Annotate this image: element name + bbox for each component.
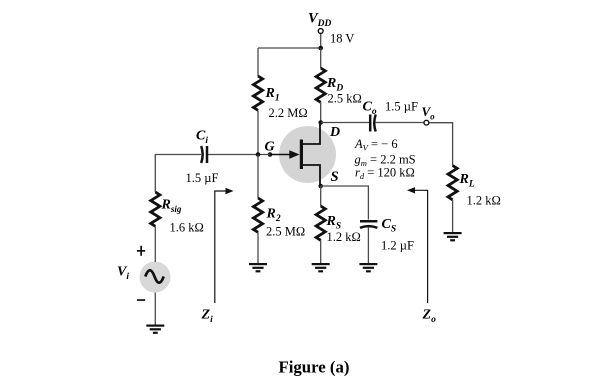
- wire: VDD terminal to top rail: [320, 34, 322, 49]
- wire: divider node down to R2: [257, 155, 259, 199]
- svg-text:Vi: Vi: [117, 265, 129, 283]
- label Zo: [422, 308, 437, 326]
- svg-text:CS: CS: [382, 217, 397, 235]
- value 2.5 MOhm (R2): [266, 225, 305, 239]
- wire: R2 to ground: [257, 232, 259, 263]
- label Rsig: [161, 198, 182, 215]
- params text: Av: [354, 137, 398, 153]
- svg-text:Zi: Zi: [201, 308, 214, 326]
- Zi measurement arrow: [215, 188, 234, 303]
- ground (RS): [312, 263, 330, 272]
- label RS: [326, 214, 342, 232]
- svg-text:1.5 µF: 1.5 µF: [186, 171, 219, 185]
- drain lead: [302, 124, 320, 144]
- wire: Vo to RL corner: [429, 123, 453, 166]
- terminal Vo: [424, 120, 429, 125]
- svg-text:18 V: 18 V: [330, 32, 354, 46]
- node: gate junction G: [268, 152, 273, 157]
- wire: Rsig to Vi source: [154, 226, 156, 262]
- svg-text:1.2 kΩ: 1.2 kΩ: [327, 230, 361, 244]
- wire: S to RS: [320, 186, 322, 206]
- svg-text:R2: R2: [266, 207, 281, 225]
- value 2.5 kOhm (RD): [328, 92, 362, 106]
- VDD terminal: [318, 29, 323, 34]
- node: drain junction D: [318, 120, 323, 125]
- wire: VDD node down to RD: [320, 48, 322, 68]
- wire: Co to Vo terminal: [375, 122, 424, 124]
- resistor RD: [316, 68, 325, 102]
- svg-text:1.2 µF: 1.2 µF: [381, 239, 414, 253]
- node: VDD junction: [318, 46, 323, 51]
- value 1.6 kOhm (Rsig): [170, 221, 204, 235]
- svg-text:RL: RL: [459, 172, 475, 190]
- resistor RS: [316, 206, 325, 240]
- svg-text:Rsig: Rsig: [161, 198, 182, 215]
- value 1.2 kOhm (RS): [327, 230, 361, 244]
- value 1.5 uF (Co): [385, 100, 418, 114]
- resistor RL: [448, 166, 457, 200]
- value 2.2 MOhm (R1): [269, 106, 308, 120]
- svg-text:RS: RS: [326, 214, 342, 232]
- params text: gm: [355, 153, 416, 169]
- ground (RL): [444, 232, 462, 241]
- label RD: [326, 76, 343, 94]
- wire: R1 top drop: [257, 48, 259, 76]
- label G: [265, 140, 275, 155]
- wire: top rail from R1 to VDD node: [258, 47, 321, 49]
- wire: RL to ground: [452, 200, 454, 232]
- node: bias divider junction: [256, 152, 261, 157]
- node: S junction: [318, 184, 323, 189]
- svg-text:R1: R1: [265, 86, 280, 104]
- resistor R1: [253, 76, 262, 110]
- Zo measurement arrow: [407, 187, 428, 303]
- wire: R1 to gate rail: [257, 110, 259, 154]
- minus sign: [137, 299, 145, 301]
- channel bar: [300, 140, 303, 170]
- capacitor Co: [370, 115, 376, 132]
- label VDD: [308, 11, 332, 30]
- label RL: [459, 172, 475, 190]
- params text: rd: [355, 166, 415, 182]
- caption Figure (a): [279, 358, 350, 377]
- label Vi: [117, 265, 129, 283]
- ground (CS): [359, 263, 377, 272]
- svg-text:rd = 120 kΩ: rd = 120 kΩ: [355, 166, 415, 182]
- value 18 V: [330, 32, 354, 46]
- wire: CS to ground: [367, 228, 369, 264]
- value 1.5 uF (Ci): [186, 171, 219, 185]
- label Zi: [201, 308, 214, 326]
- svg-text:1.5 µF: 1.5 µF: [385, 100, 418, 114]
- svg-text:Co: Co: [363, 100, 377, 118]
- label Ci: [196, 129, 208, 147]
- wire: Vi to ground: [154, 293, 156, 325]
- svg-text:Figure (a): Figure (a): [279, 358, 350, 377]
- wire: gate rail from Ci to gate: [206, 154, 270, 156]
- label Co: [363, 100, 377, 118]
- capacitor CS: [360, 221, 377, 228]
- capacitor Ci: [201, 146, 207, 163]
- label R2: [266, 207, 281, 225]
- svg-text:Ci: Ci: [196, 129, 208, 147]
- resistor Rsig: [151, 192, 160, 226]
- value 1.2 kOhm (RL): [467, 194, 501, 208]
- label D: [329, 125, 340, 140]
- svg-text:AV = − 6: AV = − 6: [354, 137, 398, 153]
- label R1: [265, 86, 280, 104]
- wire: S over to CS branch: [321, 186, 369, 220]
- svg-text:VDD: VDD: [308, 11, 332, 30]
- gate lead with arrowhead: [270, 154, 292, 156]
- ground (Vi): [146, 325, 164, 334]
- svg-text:G: G: [265, 140, 275, 155]
- svg-text:2.5 kΩ: 2.5 kΩ: [328, 92, 362, 106]
- wire: RS to ground: [320, 240, 322, 263]
- svg-text:Zo: Zo: [422, 308, 437, 326]
- svg-text:D: D: [329, 125, 340, 140]
- wire: Ci to input branch corner: [155, 155, 201, 193]
- ground (R2): [249, 263, 267, 272]
- JFET Q1: [270, 124, 320, 186]
- resistor R2: [253, 198, 262, 232]
- label S: [331, 169, 339, 185]
- wire: drain node to Co: [321, 122, 369, 124]
- source lead: [302, 165, 320, 186]
- plus sign: [137, 246, 145, 256]
- wire: RD to drain node: [320, 102, 322, 122]
- svg-text:Vo: Vo: [422, 104, 436, 122]
- label CS: [382, 217, 397, 235]
- label Vo: [422, 104, 436, 122]
- source Vi sine symbol: [145, 270, 163, 283]
- svg-text:1.6 kΩ: 1.6 kΩ: [170, 221, 204, 235]
- value 1.2 uF (CS): [381, 239, 414, 253]
- svg-text:2.5 MΩ: 2.5 MΩ: [266, 225, 305, 239]
- svg-text:2.2 MΩ: 2.2 MΩ: [269, 106, 308, 120]
- Vi source shading circle: [140, 262, 171, 293]
- JFET body shading circle: [279, 126, 336, 183]
- svg-text:S: S: [331, 169, 339, 185]
- svg-text:1.2 kΩ: 1.2 kΩ: [467, 194, 501, 208]
